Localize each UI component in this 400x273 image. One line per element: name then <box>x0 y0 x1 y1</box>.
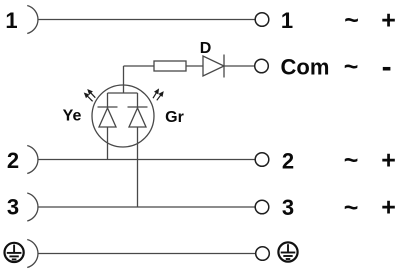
svg-text:~: ~ <box>344 7 359 35</box>
svg-text:1: 1 <box>281 8 293 33</box>
svg-text:Gr: Gr <box>165 109 184 126</box>
svg-text:+: + <box>381 194 396 222</box>
svg-text:1: 1 <box>5 8 17 33</box>
svg-text:-: - <box>382 50 392 83</box>
svg-text:D: D <box>200 40 212 57</box>
svg-text:Com: Com <box>281 55 330 80</box>
svg-text:3: 3 <box>7 195 19 220</box>
svg-text:+: + <box>381 6 396 34</box>
svg-text:3: 3 <box>282 195 294 220</box>
svg-text:2: 2 <box>282 149 294 174</box>
svg-text:+: + <box>381 147 396 175</box>
svg-text:Ye: Ye <box>63 108 82 125</box>
svg-text:~: ~ <box>344 53 359 81</box>
svg-text:2: 2 <box>7 148 19 173</box>
svg-text:~: ~ <box>344 147 359 175</box>
svg-text:~: ~ <box>344 194 359 222</box>
